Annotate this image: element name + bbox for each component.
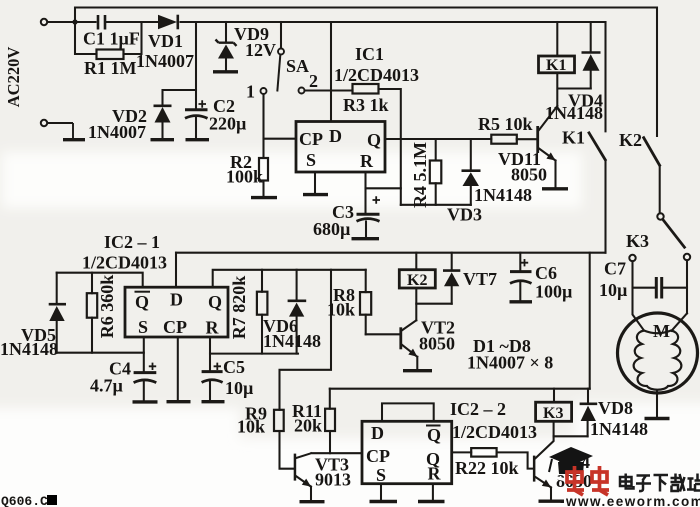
wire: VT3 emitter to ground <box>296 476 311 500</box>
resistor R6 <box>87 293 97 318</box>
wire: branch from Q rail jog to R9 <box>280 270 332 410</box>
op-amp-box IC2-2 CD4013 flip-flop <box>362 421 452 483</box>
switch contact K2 blade <box>643 137 660 167</box>
relay coil K3 <box>536 402 572 422</box>
svg-text:8050: 8050 <box>419 334 455 354</box>
switch SA blade <box>277 55 280 92</box>
svg-text:9013: 9013 <box>315 470 351 490</box>
wire: IC1 S pin to ground <box>314 172 316 194</box>
wire: K2 relay coil stems <box>415 253 417 321</box>
resistor R11 <box>325 409 335 431</box>
svg-text:C6: C6 <box>535 263 557 283</box>
resistor R7 <box>257 292 268 315</box>
wire: K2 coil bottom link to VT7 <box>416 303 451 305</box>
diode VD5 <box>49 304 66 321</box>
watermark bug character 2 <box>592 466 609 495</box>
wire: R3 right side down to R rail <box>379 89 401 205</box>
wire: mid bus y253 <box>176 252 606 254</box>
svg-text:R4 5.1M: R4 5.1M <box>410 142 430 208</box>
ground IC2-2 R <box>418 500 445 503</box>
plus sign C6 <box>521 259 528 266</box>
motor M <box>618 313 698 393</box>
svg-text:S: S <box>138 317 148 337</box>
svg-text:K1: K1 <box>546 57 566 74</box>
wire: lower bus y389 <box>330 388 590 390</box>
wire: R9 bottom to VT3 base <box>280 431 294 469</box>
svg-text:R: R <box>206 318 220 338</box>
svg-text:1: 1 <box>246 82 255 102</box>
svg-text:10k: 10k <box>327 300 355 320</box>
capacitor C1 <box>98 15 105 30</box>
ground AC neutral <box>63 138 85 141</box>
wire: rail from R pin to R7/VD6 bottoms <box>210 353 298 355</box>
wire: IC2-2 D to Q-bar top loop <box>382 403 434 421</box>
capacitor C2 electrolytic <box>185 110 208 119</box>
svg-text:SA: SA <box>286 56 309 76</box>
wire: VT3 collector to IC2-2 CP <box>296 453 362 458</box>
svg-text:R22 10k: R22 10k <box>455 458 519 478</box>
watermark bug character 1 <box>567 466 584 495</box>
resistor R3 <box>353 84 379 94</box>
watermark site name CJK <box>620 474 700 492</box>
wire: R4 stems <box>435 139 437 205</box>
ground IC1 S pin <box>303 193 328 196</box>
relay coil K1 <box>539 56 575 74</box>
op-amp-box IC1 CD4013 flip-flop <box>296 122 385 173</box>
svg-text:Q: Q <box>135 292 149 312</box>
switch K2 lower contact terminal <box>684 254 690 260</box>
watermark graduation cap <box>549 447 593 480</box>
wire: C2 negative to ground <box>195 118 197 139</box>
plus sign C2 <box>199 100 207 107</box>
ground VD9 <box>213 70 238 73</box>
svg-text:1N4148: 1N4148 <box>263 331 321 351</box>
svg-text:1N4007: 1N4007 <box>136 51 194 71</box>
svg-text:R1 1M: R1 1M <box>84 58 137 78</box>
plus sign C3 <box>373 196 381 203</box>
transistor VT3 9013 <box>294 454 311 487</box>
wire: VD9 anode to ground <box>225 59 227 71</box>
svg-text:K3: K3 <box>626 231 649 251</box>
wire: SA branch from bus <box>280 22 282 48</box>
svg-text:D: D <box>329 126 342 146</box>
node 2 terminal <box>299 88 305 94</box>
capacitor C5 electrolytic <box>202 372 223 383</box>
svg-text:CP: CP <box>163 317 187 337</box>
terminal AC live <box>41 19 47 25</box>
wire: D pin of IC1 up to bus <box>330 22 332 122</box>
svg-text:Q: Q <box>427 425 441 445</box>
wire: IC2-1 S pin down through rail to C4 <box>143 337 145 372</box>
wire: VD6 stems <box>296 270 298 354</box>
svg-text:10µ: 10µ <box>225 378 254 398</box>
wire: VD4 stems <box>590 22 592 89</box>
svg-text:IC2 – 2: IC2 – 2 <box>450 399 506 419</box>
switch K3 contact terminal <box>629 255 635 261</box>
svg-text:K1: K1 <box>562 128 585 148</box>
ground motor <box>645 417 670 420</box>
node 1 terminal <box>261 88 267 94</box>
wire: CP pin of IC1 <box>264 138 297 140</box>
diode VD4 <box>582 53 601 71</box>
watermark Q606 block <box>47 495 57 505</box>
ground VD11 emitter <box>542 187 568 190</box>
ground VT4 emitter <box>539 500 565 503</box>
wire: bottom rail VD5/R6 to S pin <box>57 352 144 354</box>
svg-text:10k: 10k <box>237 417 265 437</box>
wire: VD8 stems <box>587 389 589 437</box>
svg-text:C1 1µF: C1 1µF <box>83 29 140 49</box>
capacitor C4 electrolytic <box>134 373 157 383</box>
ground C4 <box>133 400 158 403</box>
wire: R8 stems <box>365 270 367 335</box>
wire: AC live input to C1 <box>48 21 96 23</box>
wire: bottom rail R3/R4/VD3 <box>401 204 471 206</box>
svg-text:D: D <box>371 423 384 443</box>
svg-text:K2: K2 <box>619 130 642 150</box>
wire: IC1 R pin down to C3 <box>364 172 366 214</box>
wire: VD3 stems <box>470 139 472 205</box>
svg-text:VT7: VT7 <box>463 269 497 289</box>
svg-text:R7 820k: R7 820k <box>229 276 249 340</box>
wire: C6 stems <box>519 253 521 301</box>
wire: IC2-1 CP pin to ground <box>177 337 179 400</box>
svg-text:1N4148: 1N4148 <box>474 185 532 205</box>
wire: K3 node down to VT4 collector <box>535 436 553 458</box>
ground IC2-2 S <box>370 500 398 503</box>
switch SA terminal <box>278 49 284 55</box>
wire: C4 negative to ground <box>143 382 145 400</box>
pin Qbar of IC2-2 <box>426 425 441 445</box>
capacitor C6 electrolytic <box>510 272 532 284</box>
transistor VD11 8050 <box>536 126 555 161</box>
wire: K3 coil bottom link to VD8 <box>554 435 588 437</box>
ground C6 <box>510 300 533 303</box>
diode VD8 <box>580 404 598 421</box>
ground C3 <box>352 237 380 240</box>
wire: motor bottom lead <box>656 390 658 417</box>
svg-text:K2: K2 <box>407 272 427 289</box>
capacitor C3 electrolytic <box>357 214 380 221</box>
svg-text:IC2 – 1: IC2 – 1 <box>104 232 160 252</box>
svg-text:1/2CD4013: 1/2CD4013 <box>334 65 419 85</box>
svg-text:1/2CD4013: 1/2CD4013 <box>82 253 167 273</box>
wire: R11 stems <box>329 389 331 454</box>
wire: node 2 to R3 <box>305 89 353 91</box>
svg-text:Q: Q <box>208 292 222 312</box>
wire: IC2-1 R pin down to C5 <box>209 337 211 371</box>
wire: AC neutral to common ground <box>48 123 74 139</box>
wire: R22 to VT4 base <box>497 452 533 468</box>
wire: R1 parallel loop <box>75 22 142 54</box>
plus sign C4 <box>149 363 156 370</box>
resistor R1 <box>97 50 124 60</box>
wire: VT4 emitter to ground <box>535 477 551 499</box>
ground VT2 emitter <box>403 369 432 372</box>
wire: C5 negative to ground <box>209 382 211 401</box>
wire: node 1 down to R2 and CP <box>262 94 264 158</box>
svg-text:10µ: 10µ <box>599 280 628 300</box>
diode VD3 <box>462 171 481 186</box>
pin Qbar of IC2-1 <box>135 292 151 312</box>
svg-text:2: 2 <box>309 71 318 91</box>
svg-text:D: D <box>170 290 183 310</box>
svg-text:4.7µ: 4.7µ <box>90 376 124 396</box>
op-amp-box IC2-1 CD4013 flip-flop <box>125 287 228 337</box>
svg-text:1N4148: 1N4148 <box>545 103 603 123</box>
svg-text:1N4148: 1N4148 <box>0 339 58 359</box>
svg-text:VD3: VD3 <box>447 205 482 225</box>
wire: top bus from AC junction to K2 <box>75 8 657 137</box>
terminal AC neutral <box>41 120 47 126</box>
wire: C1 to VD1 <box>107 21 158 23</box>
svg-text:-www.eeworm.com: -www.eeworm.com <box>560 494 700 507</box>
wire: R6 stems <box>91 273 93 353</box>
wire: R rail to R3 vertical <box>366 187 401 189</box>
wire: K1 coil top from bus <box>556 22 558 56</box>
switch K2 lower blade <box>663 219 686 248</box>
wire: IC2-2 Q to R22 <box>452 451 472 453</box>
svg-text:C7: C7 <box>604 259 626 279</box>
resistor R4 <box>430 161 442 184</box>
wire: C7 right link and motor lead <box>663 288 687 331</box>
svg-text:CP: CP <box>366 446 390 466</box>
svg-text:VD1: VD1 <box>148 31 183 51</box>
svg-text:100µ: 100µ <box>535 282 573 302</box>
svg-text:C5: C5 <box>223 357 245 377</box>
wire: K1 switch drop to main bus y253 <box>604 22 606 253</box>
svg-text:R: R <box>428 464 442 484</box>
wire: vertical linking mid bus to lower bus <box>589 253 591 389</box>
svg-text:8050: 8050 <box>511 165 547 185</box>
wire: IC2-2 R pin to ground <box>432 484 434 500</box>
svg-text:R5 10k: R5 10k <box>478 114 533 134</box>
diode VD1 <box>158 15 178 30</box>
wire: IC2-1 Q pin rail to R7 VD6 R8 <box>213 270 366 287</box>
svg-text:S: S <box>376 465 386 485</box>
switch contact K1 blade <box>588 132 606 161</box>
wire: VD5 stems <box>56 273 58 353</box>
switch K2 pivot terminal <box>657 213 663 219</box>
svg-text:K3: K3 <box>543 405 563 422</box>
svg-text:VD8: VD8 <box>598 398 633 418</box>
wire: VT7 stems <box>451 253 453 304</box>
transistor VT4 8050 <box>533 456 551 488</box>
diode VD6 <box>288 301 307 317</box>
svg-text:20k: 20k <box>294 416 322 436</box>
svg-text:S: S <box>306 150 316 170</box>
wire: C7 left link and motor lead <box>633 288 655 331</box>
wire: branch to VD2 <box>163 90 197 106</box>
wire: IC2-1 Q-bar rail to VD5/R6 <box>57 273 143 288</box>
ground C2 <box>186 138 210 141</box>
ground C5 <box>202 400 225 403</box>
svg-text:1N4007: 1N4007 <box>88 122 146 142</box>
wire: VD11 emitter to ground <box>539 149 556 188</box>
zener diode VD9 <box>216 40 237 59</box>
wire: K2 lower contact down <box>686 260 688 313</box>
svg-text:R6 360k: R6 360k <box>97 275 117 339</box>
svg-text:R3 1k: R3 1k <box>343 95 389 115</box>
wire: VD2 anode to ground <box>161 123 163 139</box>
svg-text:Q: Q <box>367 130 381 150</box>
transistor VT2 8050 <box>399 327 417 357</box>
wire: IC2-1 D pin up to mid bus <box>175 253 177 288</box>
ground IC2-1 CP <box>167 400 191 403</box>
capacitor C7 <box>656 277 661 299</box>
resistor R9 <box>274 410 284 431</box>
wire: IC2-2 S pin to ground <box>380 484 382 500</box>
svg-text:12V: 12V <box>245 40 276 60</box>
svg-text:1N4148: 1N4148 <box>590 419 648 439</box>
wire: VT2 collector diagonal <box>402 320 416 330</box>
wire: K3 coil stems <box>553 389 555 437</box>
wire: R5 to VD11 base <box>517 138 537 140</box>
svg-text:100k: 100k <box>226 167 263 187</box>
wire: C2 branch from bus <box>195 22 197 109</box>
svg-text:680µ: 680µ <box>313 219 351 239</box>
plus sign C5 <box>214 363 221 370</box>
wire: +12V bus from VD1 cathode to K1 switch drop <box>181 21 606 23</box>
svg-text:1N4007 × 8: 1N4007 × 8 <box>467 353 553 373</box>
wire: R2 to ground <box>262 181 264 197</box>
wire: K3 contact to C7 left <box>631 261 633 288</box>
wire: K1 coil bottom node to VD4 <box>557 73 590 106</box>
relay coil K2 <box>399 270 435 289</box>
wire: VT2 base from R8 <box>366 333 400 335</box>
wire: R7 stems <box>261 270 263 354</box>
resistor R2 <box>259 158 268 181</box>
wire: C3 negative to ground <box>365 222 367 238</box>
svg-text:220µ: 220µ <box>209 114 247 134</box>
svg-text:1/2CD4013: 1/2CD4013 <box>452 422 537 442</box>
wire: VD11 collector up to relay node <box>539 106 557 130</box>
resistor R5 <box>491 135 517 144</box>
resistor R22 <box>471 448 496 457</box>
wire: VD9 branch from bus <box>225 22 227 42</box>
junction dot AC input <box>72 19 77 24</box>
ground VD2 <box>151 138 175 141</box>
svg-text:R: R <box>360 151 374 171</box>
resistor R8 <box>360 292 371 315</box>
svg-text:AC220V: AC220V <box>4 47 23 108</box>
wire: K2 switch lower drop <box>659 167 661 214</box>
ground R2 <box>251 196 277 199</box>
diode VT7 <box>443 271 460 287</box>
ground VT3 emitter <box>300 500 325 503</box>
wire: VT2 emitter to ground <box>402 345 417 369</box>
svg-text:CP: CP <box>299 129 323 149</box>
svg-text:IC1: IC1 <box>355 44 384 64</box>
wire: IC1 Q output to R5 <box>385 138 491 140</box>
diode VD2 <box>154 106 172 123</box>
svg-text:M: M <box>653 321 670 341</box>
